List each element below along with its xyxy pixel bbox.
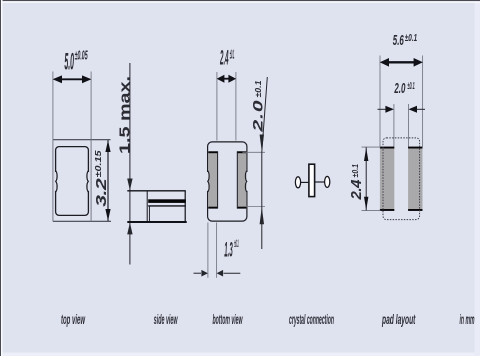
svg-text:5.6: 5.6 bbox=[393, 32, 404, 49]
svg-text:±0.15: ±0.15 bbox=[94, 150, 103, 177]
svg-text:5.0: 5.0 bbox=[64, 49, 74, 76]
svg-text:side view: side view bbox=[154, 311, 178, 327]
svg-text:2.4: 2.4 bbox=[348, 179, 365, 201]
svg-text:±0.1: ±0.1 bbox=[230, 47, 235, 61]
svg-text:1.5 max.: 1.5 max. bbox=[116, 76, 133, 154]
svg-text:±0.1: ±0.1 bbox=[352, 164, 361, 178]
svg-text:crystal connection: crystal connection bbox=[289, 311, 334, 327]
svg-text:±0.1: ±0.1 bbox=[255, 80, 264, 97]
svg-text:2.4: 2.4 bbox=[220, 47, 229, 70]
svg-text:1.3: 1.3 bbox=[224, 239, 232, 262]
svg-text:±0.1: ±0.1 bbox=[234, 238, 238, 250]
svg-text:3.2: 3.2 bbox=[93, 178, 109, 207]
svg-text:pad layout: pad layout bbox=[382, 311, 417, 327]
svg-text:±0.05: ±0.05 bbox=[75, 48, 88, 63]
svg-text:in mm: in mm bbox=[460, 311, 475, 327]
svg-text:±0.1: ±0.1 bbox=[405, 33, 418, 44]
svg-text:bottom view: bottom view bbox=[213, 311, 243, 327]
svg-text:±0.1: ±0.1 bbox=[407, 81, 414, 92]
svg-text:2.0: 2.0 bbox=[250, 100, 266, 132]
svg-text:top view: top view bbox=[61, 311, 85, 327]
svg-text:2.0: 2.0 bbox=[394, 80, 406, 97]
